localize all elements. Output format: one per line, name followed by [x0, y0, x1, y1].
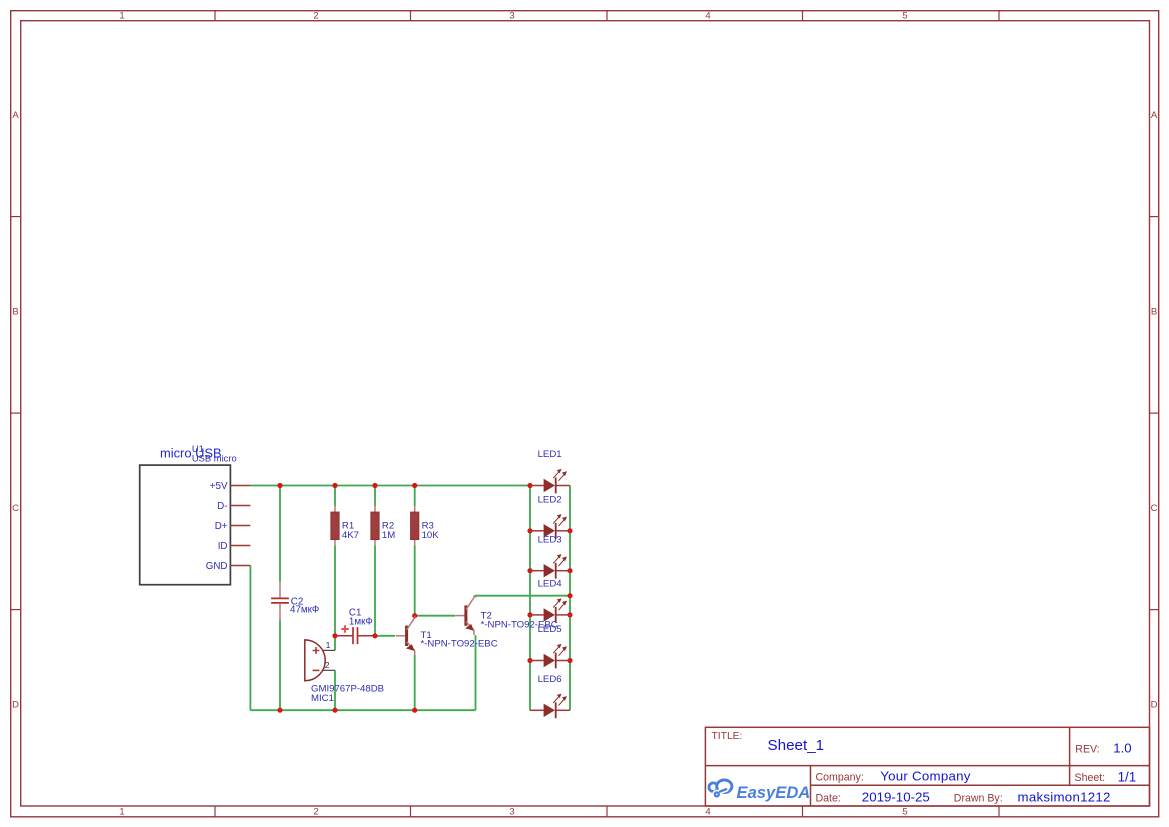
U1 pin +5V	[210, 481, 251, 492]
junction node (530,660.5)	[527, 658, 532, 663]
LED LED2	[530, 494, 570, 538]
svg-text:4K7: 4K7	[342, 530, 359, 541]
title block outline	[705, 727, 1149, 806]
junction node (375,635.8)	[372, 633, 377, 638]
svg-text:MIC1: MIC1	[311, 693, 334, 704]
svg-text:D-: D-	[217, 501, 227, 512]
LED LED3	[530, 534, 570, 578]
wire mic pin2 to ground bus	[334, 670, 336, 710]
svg-text:Company:: Company:	[816, 772, 864, 784]
resistor R2	[371, 506, 395, 545]
MIC1 pin 1	[323, 640, 335, 650]
svg-text:2: 2	[313, 11, 318, 22]
junction node (570,530.8)	[567, 528, 572, 533]
svg-text:LED2: LED2	[538, 494, 562, 505]
wire T2 emitter down	[475, 635, 477, 710]
svg-text:GND: GND	[206, 561, 228, 572]
junction node (280,485.5)	[277, 483, 282, 488]
svg-text:D+: D+	[215, 521, 228, 532]
svg-text:2019-10-25: 2019-10-25	[862, 790, 930, 805]
svg-text:Drawn By:: Drawn By:	[954, 793, 1003, 805]
junction node (570,570.7)	[567, 568, 572, 573]
svg-text:5: 5	[902, 11, 907, 22]
junction node (335,635.8)	[332, 633, 337, 638]
wire LED anode rail	[529, 486, 531, 711]
svg-text:B: B	[12, 307, 18, 318]
svg-text:C: C	[1151, 503, 1158, 514]
transistor T2 NPN	[455, 596, 557, 635]
wire +5V bus	[250, 485, 530, 487]
svg-text:LED5: LED5	[538, 624, 562, 635]
wire R1 bottom to C1/mic pin1	[334, 545, 336, 650]
wire T1 emitter to ground bus	[414, 655, 416, 710]
svg-text:C: C	[12, 503, 19, 514]
EasyEDA logo cloud icon	[709, 779, 733, 797]
junction node (530,485.5)	[527, 483, 532, 488]
svg-text:Sheet:: Sheet:	[1075, 772, 1106, 784]
svg-text:A: A	[1151, 110, 1158, 121]
svg-text:1: 1	[119, 807, 124, 818]
LED LED6	[530, 674, 570, 718]
resistor R1	[331, 506, 359, 545]
svg-text:10K: 10K	[422, 530, 440, 541]
junction node (570,660.5)	[567, 658, 572, 663]
capacitor C2	[271, 582, 319, 621]
U1 pin GND	[206, 561, 251, 572]
MIC1 pin 2	[323, 660, 335, 670]
junction node (530,614.9)	[527, 612, 532, 617]
wire C1 to T1 base	[375, 635, 395, 637]
connector U1 USB micro body	[140, 465, 231, 585]
svg-text:3: 3	[509, 807, 514, 818]
U1 pin ID	[218, 541, 251, 552]
svg-text:LED6: LED6	[538, 674, 562, 685]
wire T1 collector to T2 base	[415, 615, 456, 617]
svg-text:EasyEDA: EasyEDA	[737, 783, 811, 802]
svg-text:1/1: 1/1	[1118, 770, 1137, 785]
svg-text:ID: ID	[218, 541, 228, 552]
junction node (530,570.7)	[527, 568, 532, 573]
svg-text:47мкФ: 47мкФ	[290, 605, 319, 616]
svg-text:Your Company: Your Company	[880, 769, 971, 784]
svg-text:REV:: REV:	[1075, 744, 1099, 756]
wire LED cathode rail	[569, 486, 571, 711]
svg-text:maksimon1212: maksimon1212	[1018, 790, 1111, 805]
wire R3 top	[414, 486, 416, 507]
frame column numbers top	[119, 11, 907, 22]
junction node (530,530.8)	[527, 528, 532, 533]
svg-text:USB micro: USB micro	[192, 452, 237, 463]
svg-text:D: D	[1151, 700, 1158, 711]
svg-text:4: 4	[705, 11, 710, 22]
junction node (335,710.2)	[332, 708, 337, 713]
svg-text:TITLE:: TITLE:	[712, 731, 743, 742]
wire R3 bottom to T1 collector	[414, 545, 416, 615]
LED LED5	[530, 624, 570, 668]
svg-text:3: 3	[509, 11, 514, 22]
junction node (280,710.2)	[277, 708, 282, 713]
wire R2 top	[374, 486, 376, 507]
svg-text:2: 2	[325, 660, 330, 670]
LED LED4	[530, 579, 570, 623]
wire C2 branch upper	[279, 486, 281, 582]
U1 pin D-	[217, 501, 250, 512]
svg-text:1: 1	[119, 11, 124, 22]
title block divider lines	[705, 727, 1149, 806]
LED LED1	[530, 449, 570, 493]
junction node (375,485.5)	[372, 483, 377, 488]
svg-text:Sheet_1: Sheet_1	[768, 737, 825, 754]
junction node (570,595.7)	[567, 593, 572, 598]
junction node (335,485.5)	[332, 483, 337, 488]
frame row tick marks	[11, 217, 1159, 610]
transistor T1 NPN	[396, 616, 498, 655]
frame row letters right	[1151, 110, 1158, 711]
svg-text:LED4: LED4	[538, 579, 563, 590]
svg-text:+5V: +5V	[210, 481, 228, 492]
microphone MIC1 body	[305, 640, 325, 681]
svg-text:Date:: Date:	[816, 793, 841, 805]
capacitor C1	[335, 607, 375, 644]
wire T2 collector to LED cathode rail	[476, 596, 571, 598]
wire R1 top	[334, 486, 336, 507]
svg-text:*-NPN-TO92-EBC: *-NPN-TO92-EBC	[421, 639, 498, 650]
junction node (414.7,485.5)	[412, 483, 417, 488]
junction node (414.7,710.2)	[412, 708, 417, 713]
svg-text:LED3: LED3	[538, 534, 562, 545]
wire GND from USB down	[249, 566, 251, 711]
svg-text:1: 1	[326, 640, 331, 650]
svg-text:1.0: 1.0	[1113, 741, 1131, 756]
resistor R3	[411, 506, 440, 545]
wire R2 bottom to C1	[374, 545, 376, 636]
svg-text:D: D	[12, 700, 19, 711]
svg-text:4: 4	[705, 807, 710, 818]
U1 pin D+	[215, 521, 251, 532]
junction node (570,614.9)	[567, 612, 572, 617]
svg-text:A: A	[12, 110, 19, 121]
svg-text:1M: 1M	[382, 530, 395, 541]
junction node (414.7,615.7)	[412, 613, 417, 618]
svg-text:1мкФ: 1мкФ	[349, 617, 373, 628]
svg-text:5: 5	[902, 807, 907, 818]
frame column tick marks	[215, 11, 999, 817]
frame column numbers bottom	[119, 807, 907, 818]
wire C2 branch lower	[279, 620, 281, 710]
svg-text:LED1: LED1	[538, 449, 562, 460]
svg-text:2: 2	[313, 807, 318, 818]
frame row letters left	[12, 110, 19, 711]
svg-text:B: B	[1151, 307, 1157, 318]
wire ground bus bottom	[250, 709, 475, 711]
